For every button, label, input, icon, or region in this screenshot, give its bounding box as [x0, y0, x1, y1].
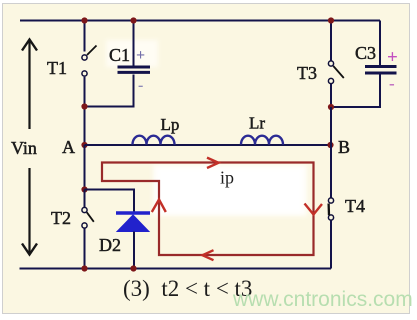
wire: right column C3 junction to node B [330, 107, 332, 145]
inductor Lr [241, 136, 283, 145]
wire: node B to T4 [330, 145, 332, 198]
svg-text:-: - [389, 74, 395, 93]
capacitor C3 plates [365, 67, 397, 74]
node A [81, 142, 87, 148]
ip arrow left (bottom edge) [203, 250, 214, 260]
junction dot C1 bottom [81, 103, 87, 109]
junction dot C3 bottom [328, 104, 334, 110]
capacitor C3 branch top wire [379, 21, 381, 66]
current loop ip (red path) [102, 163, 314, 256]
svg-text:T1: T1 [47, 58, 67, 78]
svg-text:+: + [387, 47, 398, 68]
wire: D2 branch horizontal [85, 190, 135, 212]
svg-text:C1: C1 [109, 45, 130, 65]
white patch behind C1 label [106, 40, 158, 67]
wire: top bus [20, 20, 380, 22]
junction dot at D2 branch [81, 186, 87, 192]
svg-text:Vin: Vin [11, 138, 37, 158]
svg-text:T3: T3 [297, 63, 317, 83]
white patch behind ip region [153, 165, 307, 216]
wire: left column C1 junction to node A [84, 107, 86, 146]
junction dot D2 bottom [130, 265, 136, 271]
svg-text:-: - [138, 77, 143, 94]
svg-text:ip: ip [220, 168, 234, 188]
wire: left column to T2 [84, 190, 86, 208]
diode D2 [116, 213, 150, 232]
svg-text:+: + [136, 47, 145, 64]
switch T3 [328, 61, 343, 84]
svg-text:www.cntronics.com: www.cntronics.com [232, 288, 413, 311]
ip arrow down (right edge) [305, 204, 323, 215]
svg-text:B: B [338, 137, 350, 157]
wire: node A to node B (A-B bus) [85, 144, 332, 146]
svg-text:C3: C3 [355, 43, 376, 63]
wire: right column top to T3 [330, 21, 332, 61]
ip arrow right (top edge) [207, 158, 219, 168]
svg-text:Lr: Lr [249, 114, 265, 133]
wire: left column T1 to C1 junction [84, 77, 86, 107]
capacitor C1 plates [118, 67, 151, 72]
svg-text:Lp: Lp [161, 115, 180, 134]
switch T2 [82, 207, 94, 228]
inductor Lp [133, 136, 175, 145]
junction dot C1 top [130, 17, 136, 23]
wire: T4 to bottom bus [330, 221, 332, 269]
svg-text:D2: D2 [99, 235, 121, 255]
Vin arrow lower segment [22, 168, 37, 255]
Vin arrow upper segment [22, 40, 37, 130]
ip arrow up (through D2) [152, 200, 166, 213]
capacitor C1 bottom wire [85, 75, 134, 107]
wire: bottom bus [20, 268, 332, 270]
node B [327, 142, 333, 148]
junction dot right top [328, 17, 334, 23]
wire: diode bottom to bottom bus [133, 232, 135, 269]
wire: left column upper (to T1) [84, 21, 86, 52]
switch T4 [328, 198, 333, 220]
wire: left column T2 to bottom bus [84, 229, 86, 269]
junction dot T2 bottom [81, 265, 87, 271]
svg-text:T2: T2 [51, 208, 71, 228]
capacitor C3 bottom wire [331, 75, 380, 108]
wire: right column T3 to C3 junction [330, 84, 332, 107]
node A junction dot on top bus [81, 17, 87, 23]
wire: left column node A down to D2 junction [84, 145, 86, 190]
svg-text:T4: T4 [345, 196, 365, 216]
capacitor C1 branch top wire [133, 21, 135, 66]
svg-text:A: A [62, 137, 75, 157]
switch T1 [82, 46, 97, 77]
